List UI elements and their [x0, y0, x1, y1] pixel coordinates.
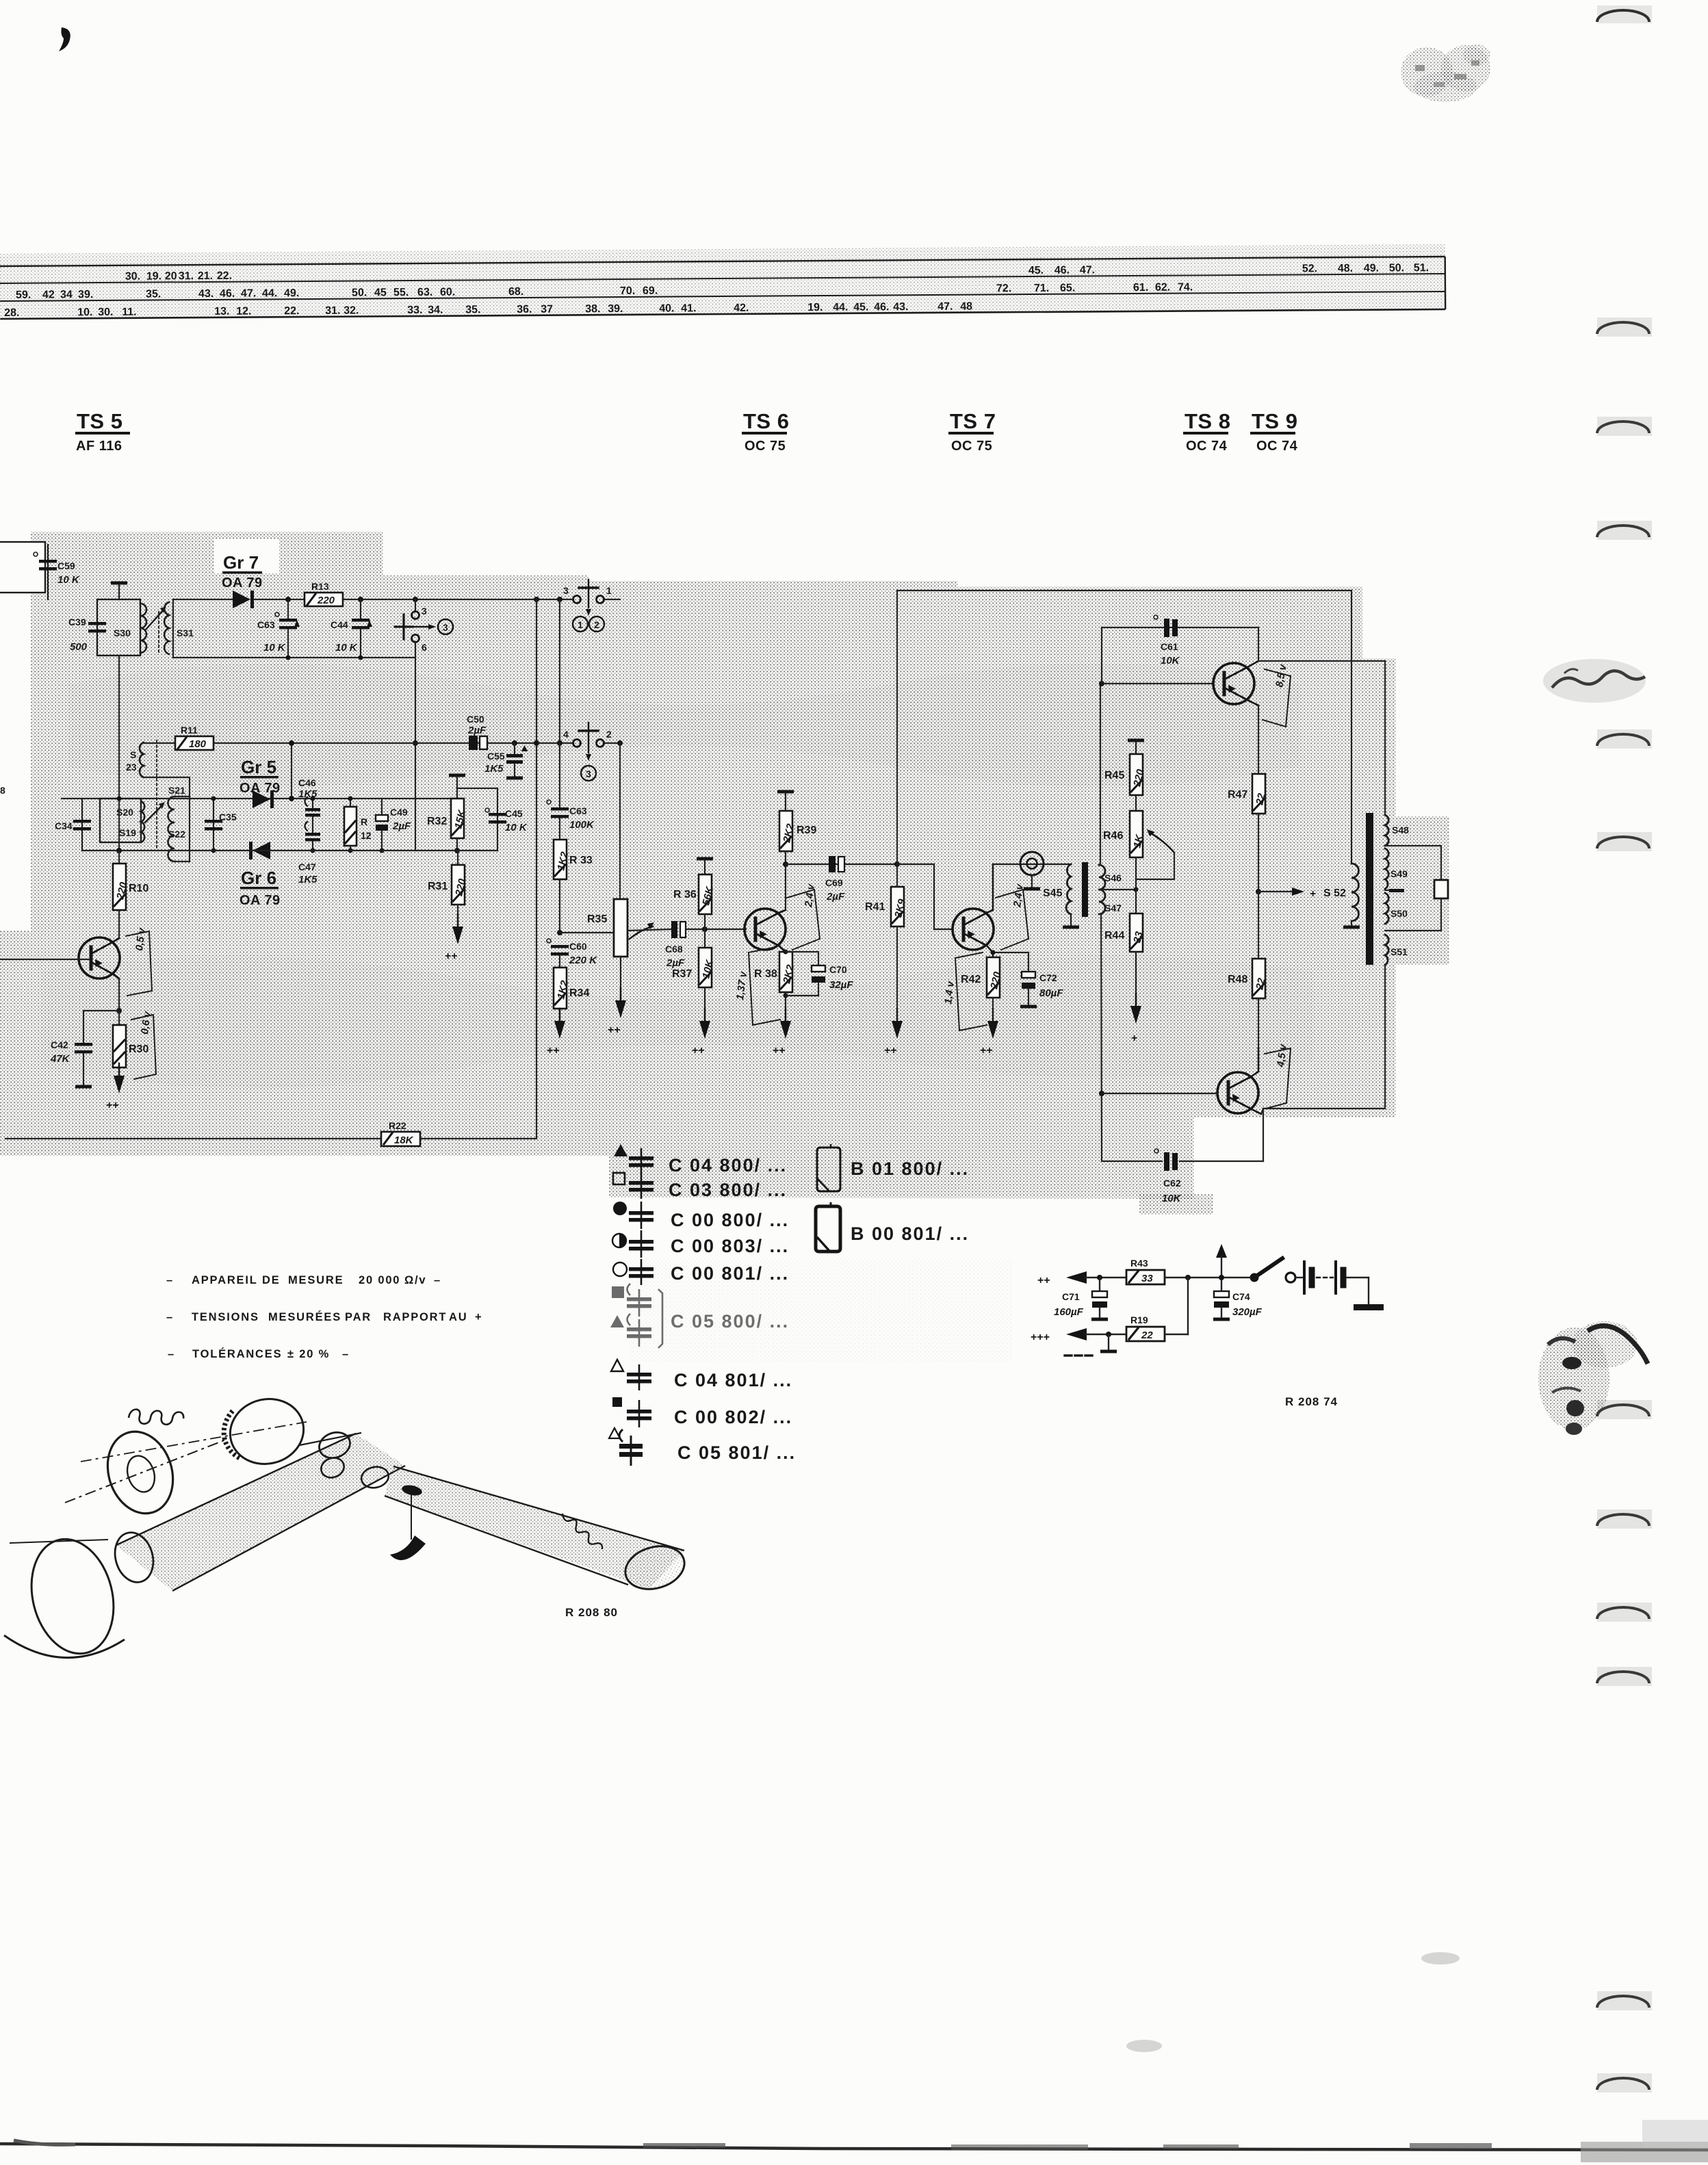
svg-text:OC 75: OC 75 [745, 439, 786, 454]
svg-text:B 00 801/ ...: B 00 801/ ... [851, 1223, 969, 1244]
svg-text:C63: C63 [257, 619, 275, 630]
svg-text:30.: 30. [98, 307, 113, 318]
capacitor C42 [50, 1011, 92, 1089]
capacitor C71 [1054, 1278, 1108, 1321]
svg-text:220: 220 [317, 595, 335, 606]
rheostat wiper arrow [1136, 829, 1174, 879]
svg-text:36.: 36. [517, 304, 532, 315]
svg-text:C50: C50 [467, 714, 484, 725]
wire C45 loop [457, 788, 497, 851]
resistor R43 [1126, 1258, 1250, 1284]
svg-text:TS 9: TS 9 [1252, 409, 1297, 433]
svg-text:C 00 802/ ...: C 00 802/ ... [674, 1407, 792, 1427]
svg-text:42: 42 [42, 289, 55, 300]
svg-text:Gr 7: Gr 7 [223, 552, 259, 573]
drive cylinder right [620, 1540, 689, 1596]
svg-text:41.: 41. [681, 302, 696, 314]
svg-text:20 000: 20 000 [359, 1274, 400, 1286]
ground [111, 582, 127, 600]
resistor R32 [427, 799, 468, 853]
wire S46 tap to R44 [1099, 887, 1139, 892]
ground [106, 1063, 125, 1111]
svg-text:35.: 35. [146, 288, 161, 300]
svg-text:C72: C72 [1039, 972, 1057, 983]
capacitor C34 [55, 799, 91, 851]
transformer coil S52 [1323, 864, 1360, 929]
wire AVC row y1086 [213, 742, 620, 744]
wire AVC feed vertical [289, 740, 294, 801]
svg-text:38.: 38. [585, 303, 600, 315]
svg-text:R41: R41 [865, 901, 885, 913]
capacitor C63 (10K) [257, 599, 300, 660]
svg-text:2µF: 2µF [826, 891, 845, 903]
capacitor C39 [68, 617, 106, 653]
capacitor legend C 00 802 [612, 1397, 792, 1427]
wire vertical volume feed [557, 599, 562, 746]
svg-text:3: 3 [422, 606, 427, 617]
resistor R42 [961, 957, 1004, 1021]
svg-text:R11: R11 [181, 725, 198, 736]
svg-text:S31: S31 [177, 627, 194, 638]
svg-text:B 01 800/ ...: B 01 800/ ... [851, 1158, 969, 1179]
ground [1130, 994, 1141, 1044]
svg-text:21.: 21. [198, 270, 213, 282]
svg-text:R35: R35 [587, 913, 607, 925]
wire vertical from S30 box [116, 656, 122, 853]
ground tick over R32 [449, 774, 465, 799]
wire table rule 2 [0, 274, 1445, 283]
svg-text:10K: 10K [1161, 655, 1180, 666]
coil S 23 [126, 742, 190, 796]
node junction R41 [894, 861, 900, 867]
capacitor C62 [1154, 1149, 1182, 1204]
svg-text:S51: S51 [1390, 946, 1408, 957]
wire bottom feedback bus with resistor R22 [5, 1120, 536, 1146]
svg-text:47K: 47K [50, 1053, 70, 1065]
transistor TS7 stage label [948, 409, 996, 454]
transistor TS6 stage label [742, 409, 789, 454]
svg-text:33: 33 [1141, 1273, 1153, 1284]
svg-text:C63: C63 [569, 805, 587, 816]
svg-text:C44: C44 [331, 619, 348, 630]
svg-text:3: 3 [586, 768, 591, 779]
voltage callout TS8 [1263, 662, 1291, 727]
node junction [413, 740, 418, 746]
svg-text:55.: 55. [393, 287, 409, 298]
svg-text:62.: 62. [1155, 282, 1170, 294]
resistor R30 [113, 1011, 148, 1076]
wire S52 feed vertical [1351, 591, 1352, 864]
capacitor legend C 05 801 [609, 1428, 796, 1466]
capacitor legend C 00 801 [613, 1259, 789, 1285]
wire IF row y1167 [62, 798, 457, 799]
svg-text:S46: S46 [1104, 872, 1122, 883]
svg-text:70.: 70. [620, 285, 635, 297]
shield box of previous IF stage (page edge) [0, 542, 45, 593]
node circled 3 [438, 619, 453, 634]
transformer coil S51 [1385, 935, 1408, 965]
svg-text:80µF: 80µF [1039, 987, 1063, 999]
node +++ supply [1031, 1328, 1126, 1343]
svg-text:10.: 10. [77, 307, 92, 318]
IF transformer tuned circuit box S30 [97, 599, 146, 656]
svg-text:R42: R42 [961, 974, 981, 985]
svg-text:22: 22 [1141, 1330, 1153, 1341]
svg-text:R 36: R 36 [673, 889, 697, 900]
resistor R46 rheostat [1103, 811, 1146, 890]
svg-text:180: 180 [189, 738, 207, 750]
svg-text:500: 500 [70, 641, 88, 653]
wire table right border [1444, 257, 1446, 309]
svg-text:Gr 6: Gr 6 [241, 868, 276, 888]
svg-text:C61: C61 [1161, 641, 1178, 652]
svg-text:40.: 40. [659, 302, 674, 314]
svg-text:48: 48 [960, 301, 972, 313]
svg-text:C60: C60 [569, 941, 587, 952]
wire coupling row y1263 [786, 864, 897, 865]
ground tick over R45 [1128, 739, 1144, 755]
svg-text:2: 2 [606, 729, 612, 740]
diode Gr6 [240, 842, 281, 908]
diode Gr5 [240, 757, 281, 808]
node junction jack pin [413, 597, 418, 602]
svg-text:10 K: 10 K [57, 574, 80, 586]
svg-text:45: 45 [374, 287, 387, 298]
svg-text:68.: 68. [508, 286, 523, 298]
svg-text:OC 74: OC 74 [1256, 439, 1298, 454]
battery legend B 01 800 [817, 1144, 969, 1191]
resistor R33 [554, 818, 593, 933]
svg-text:220 K: 220 K [569, 955, 597, 966]
svg-text:C47: C47 [298, 861, 316, 872]
svg-text:46.: 46. [220, 288, 235, 300]
svg-text:51.: 51. [1414, 262, 1429, 274]
wire TS7 collector row [993, 864, 1071, 865]
wire vertical to volume pot [619, 743, 621, 899]
switch [1250, 1258, 1296, 1282]
jack contacts 3 / 1 [563, 580, 612, 616]
capacitor C50 [467, 714, 487, 750]
wire top bus y876 [173, 599, 620, 600]
capacitor C61 loop [1102, 627, 1258, 684]
svg-text:C 04 801/ ...: C 04 801/ ... [674, 1370, 792, 1390]
svg-text:60.: 60. [440, 287, 455, 298]
svg-text:31.: 31. [179, 270, 194, 282]
svg-text:13.: 13. [214, 306, 229, 317]
transistor TS5 [0, 937, 120, 978]
svg-text:C 05 800/ ...: C 05 800/ ... [671, 1311, 789, 1332]
svg-text:32.: 32. [344, 305, 359, 317]
svg-text:R44: R44 [1104, 930, 1124, 942]
svg-text:OA 79: OA 79 [240, 893, 281, 908]
battery cells [1296, 1262, 1384, 1310]
node junction [358, 597, 363, 602]
svg-text:S22: S22 [168, 829, 185, 840]
capacitor C59 [34, 545, 80, 599]
svg-text:Ω/v: Ω/v [404, 1274, 426, 1286]
battery legend B 00 801 [816, 1202, 969, 1252]
resistor R34 [554, 956, 589, 1021]
coil S31 [164, 602, 194, 654]
node junction with ground dashes [1065, 1332, 1117, 1356]
svg-text:2µF: 2µF [666, 957, 685, 969]
svg-text:11.: 11. [122, 307, 136, 318]
capacitor C49 [376, 799, 411, 853]
resistor R13 [305, 581, 343, 606]
wire driver secondary bottom vertical [1099, 914, 1104, 1161]
voltage callout TS9 [1265, 1043, 1291, 1109]
svg-text:6: 6 [422, 642, 427, 653]
svg-text:AF 116: AF 116 [76, 439, 122, 454]
svg-text:C42: C42 [51, 1039, 68, 1050]
node junction [512, 740, 517, 746]
wire table rule 3 [0, 291, 1445, 301]
node junction [1097, 1275, 1102, 1280]
svg-text:C 05 801/ ...: C 05 801/ ... [677, 1442, 796, 1463]
svg-text:–: – [434, 1274, 441, 1286]
capacitor legend C 00 800 [613, 1202, 789, 1230]
wire top AVC run [897, 590, 1351, 591]
svg-text:OA 79: OA 79 [240, 781, 281, 796]
svg-text:S 52: S 52 [1323, 887, 1346, 899]
svg-text:± 20 %: ± 20 % [287, 1348, 330, 1360]
svg-text:10K: 10K [1162, 1193, 1182, 1204]
jack contact 6 [412, 635, 428, 658]
svg-text:46.: 46. [1054, 265, 1070, 276]
svg-text:R32: R32 [427, 816, 447, 827]
svg-text:C71: C71 [1062, 1291, 1080, 1302]
transistor TS6 [745, 909, 786, 952]
note line appareil de mesure [166, 1274, 441, 1286]
svg-text:APPAREIL: APPAREIL [192, 1274, 258, 1286]
top reference number table strip [0, 244, 1445, 320]
page mark apostrophe [59, 27, 70, 51]
svg-text:Gr 5: Gr 5 [241, 757, 276, 777]
svg-text:R 33: R 33 [569, 855, 593, 866]
svg-text:++: ++ [547, 1045, 560, 1056]
coil S21 / S22 [168, 785, 190, 861]
svg-text:C 00 803/ ...: C 00 803/ ... [671, 1236, 789, 1256]
svg-text:49.: 49. [284, 287, 299, 299]
wire arrow to transformer tap [1258, 887, 1316, 900]
capacitor C60 [547, 939, 597, 966]
note line tolerances [168, 1347, 350, 1360]
svg-text:47.: 47. [241, 288, 256, 300]
voltage callout R38 [734, 947, 780, 1025]
tuning arrow [145, 802, 165, 822]
node junction [285, 597, 291, 602]
resistor R45 [1104, 754, 1147, 811]
svg-text:S30: S30 [114, 627, 131, 638]
svg-text:++: ++ [1037, 1275, 1050, 1286]
svg-text:C34: C34 [55, 820, 73, 831]
node junction top bus [534, 597, 539, 602]
node junction [617, 740, 623, 746]
IF transformer tuned circuit box S20 / S19 [100, 799, 144, 842]
svg-text:OC 74: OC 74 [1186, 439, 1228, 454]
svg-text:30.: 30. [125, 271, 140, 283]
svg-text:R45: R45 [1104, 770, 1124, 781]
svg-text:–: – [166, 1311, 174, 1323]
svg-text:1: 1 [578, 619, 583, 630]
svg-text:20: 20 [165, 270, 177, 282]
small smudge [1421, 1952, 1460, 1965]
svg-text:S21: S21 [168, 785, 185, 796]
svg-text:OC 75: OC 75 [951, 439, 992, 454]
svg-text:59.: 59. [16, 289, 31, 301]
svg-text:+: + [1131, 1033, 1137, 1044]
transistor TS7 [953, 864, 994, 957]
svg-text:AU: AU [449, 1311, 467, 1323]
resistor R48 [1228, 892, 1268, 1048]
svg-text:++: ++ [980, 1045, 993, 1056]
svg-text:47.: 47. [937, 301, 953, 313]
ground tick over R39 [777, 790, 794, 812]
svg-text:MESURE: MESURE [288, 1274, 344, 1286]
svg-text:C35: C35 [219, 812, 237, 822]
svg-text:4: 4 [563, 729, 569, 740]
svg-text:32µF: 32µF [829, 979, 853, 991]
svg-text:+: + [475, 1311, 482, 1323]
svg-text:2µF: 2µF [392, 820, 411, 832]
ground [980, 1009, 998, 1056]
svg-text:C 04 800/ ...: C 04 800/ ... [669, 1155, 787, 1176]
resistor R36 [673, 874, 716, 929]
svg-text:43.: 43. [198, 288, 213, 300]
svg-text:42.: 42. [734, 302, 749, 314]
capacitor legend C 05 800 [610, 1284, 789, 1348]
svg-text:MESURÉES: MESURÉES [268, 1310, 341, 1323]
voltage callout R30 [131, 1010, 156, 1079]
svg-text:C68: C68 [665, 944, 683, 955]
svg-text:22.: 22. [284, 305, 299, 317]
svg-text:8: 8 [0, 785, 5, 796]
svg-text:45.: 45. [1028, 265, 1044, 276]
svg-text:1K5: 1K5 [298, 874, 318, 885]
svg-text:43.: 43. [893, 301, 908, 313]
svg-text:39.: 39. [608, 303, 623, 315]
svg-text:++: ++ [106, 1100, 119, 1111]
svg-text:22.: 22. [217, 270, 232, 282]
svg-text:45.: 45. [853, 302, 868, 313]
svg-text:63.: 63. [417, 287, 432, 298]
svg-text:TOLÉRANCES: TOLÉRANCES [192, 1347, 282, 1360]
wire TS9 base [1102, 1093, 1217, 1094]
svg-text:TS 5: TS 5 [77, 409, 122, 433]
svg-text:R 38: R 38 [754, 968, 777, 980]
capacitor C68 [665, 921, 746, 969]
spring upper left [129, 1410, 183, 1425]
resistor R19 [1126, 1314, 1188, 1341]
wire IF rail y1243 [82, 850, 497, 851]
svg-text:S49: S49 [1390, 868, 1408, 879]
svg-text:47.: 47. [1080, 264, 1095, 276]
svg-text:C 00 800/ ...: C 00 800/ ... [671, 1210, 789, 1230]
node circled 1 2 [573, 617, 604, 632]
svg-text:50.: 50. [352, 287, 367, 298]
capacitor C46 [298, 777, 320, 832]
svg-text:1: 1 [606, 585, 612, 596]
voltage callout TS6 [787, 883, 820, 950]
node junction collector TS6 [783, 861, 788, 867]
dial cord band right [385, 1466, 684, 1589]
svg-text:44.: 44. [833, 302, 848, 313]
wire AVC long vertical [896, 591, 898, 864]
drum large [4, 1530, 125, 1662]
svg-text:R 208 80: R 208 80 [565, 1606, 618, 1619]
core dashed line [156, 740, 157, 848]
wire table top rule [0, 257, 1445, 266]
pointer clamp and arrow [390, 1483, 426, 1560]
svg-text:RAPPORT: RAPPORT [383, 1311, 447, 1323]
load resistor [1434, 880, 1448, 898]
capacitor C72 [991, 950, 1064, 1009]
resistor R37 [672, 929, 716, 1021]
note line tensions mesurees [166, 1310, 482, 1323]
ground [884, 1009, 903, 1056]
wire driver primary top vertical [1099, 681, 1104, 865]
svg-text:S45: S45 [1043, 887, 1063, 899]
spring on cord [562, 1514, 602, 1549]
svg-text:+++: +++ [1031, 1332, 1050, 1343]
capacitor C63 100K [547, 743, 595, 831]
svg-text:18K: 18K [394, 1135, 414, 1146]
transistor TS8 [1213, 661, 1258, 705]
output transformer core [1366, 813, 1373, 965]
svg-text:TENSIONS: TENSIONS [192, 1311, 259, 1323]
transformer core [1082, 862, 1088, 917]
svg-text:R10: R10 [129, 883, 148, 894]
voltage callout TS7 [996, 883, 1028, 950]
resistor R10 [113, 851, 148, 938]
svg-text:R: R [361, 816, 367, 827]
resistor R39 [779, 811, 816, 910]
svg-text:46.: 46. [874, 301, 889, 313]
capacitor C74 [1213, 1291, 1263, 1321]
node junction base TS6 [702, 926, 708, 932]
capacitor legend C 04 801 [611, 1360, 792, 1390]
idler cylinder left [109, 1528, 159, 1587]
wire tap to load bottom [1385, 898, 1441, 931]
svg-text:OA 79: OA 79 [222, 575, 263, 591]
svg-text:R31: R31 [428, 881, 448, 892]
capacitor C61 [1154, 615, 1180, 666]
svg-text:TS 7: TS 7 [950, 409, 996, 433]
node junction [1185, 1275, 1191, 1280]
svg-text:C69: C69 [825, 877, 843, 888]
tuning arrow [146, 606, 166, 654]
svg-text:C46: C46 [298, 777, 316, 788]
phone jack contact [1020, 852, 1044, 891]
svg-text:3: 3 [563, 585, 569, 596]
ink smudge lower right [1538, 1321, 1648, 1435]
svg-text:48.: 48. [1338, 263, 1353, 274]
resistor R41 [865, 864, 908, 1021]
ground tick over R36 [697, 857, 713, 875]
resistor R11 [144, 725, 213, 750]
svg-text:R 208 74: R 208 74 [1285, 1395, 1338, 1408]
svg-text:R22: R22 [389, 1120, 406, 1131]
svg-text:100K: 100K [569, 819, 595, 831]
capacitor C45 [485, 808, 528, 833]
svg-text:69.: 69. [643, 285, 658, 297]
svg-text:R47: R47 [1228, 789, 1247, 801]
transistor TS8 stage label [1183, 409, 1230, 454]
capacitor C47 [298, 822, 320, 885]
svg-text:++: ++ [884, 1045, 897, 1056]
ground tick between S49 S50 [1385, 889, 1404, 892]
svg-text:65.: 65. [1060, 283, 1075, 294]
